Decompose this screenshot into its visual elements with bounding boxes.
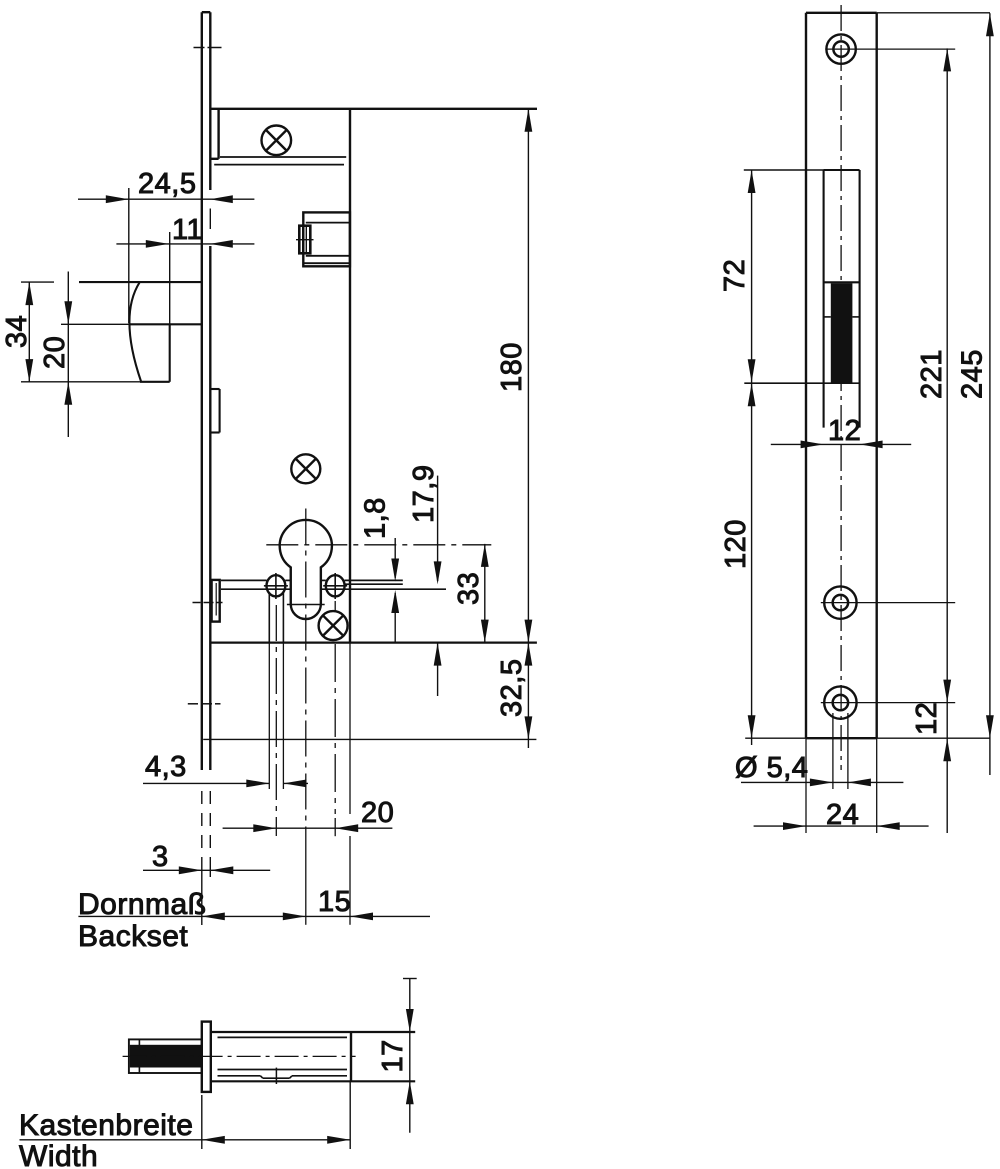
- profile cylinder (PZ) outline: [280, 520, 332, 619]
- faceplate hidden extension (left, dashed): [201, 791, 203, 925]
- bottom view: inner line with fixing notch: [218, 1068, 348, 1084]
- svg-text:221: 221: [916, 349, 948, 399]
- screw 2 (middle, with X): [291, 454, 320, 483]
- dimension 17,9: [408, 465, 442, 696]
- faceplate break tick (top): [194, 47, 222, 49]
- slide bar second line (right extension): [345, 583, 403, 585]
- svg-text:4,3: 4,3: [145, 751, 187, 783]
- side tab 1: [210, 389, 219, 433]
- strike plate outline: [806, 13, 877, 738]
- svg-text:17: 17: [377, 1039, 409, 1072]
- slide bar upper line: [221, 579, 403, 581]
- dimension 24 (plate width): [754, 799, 929, 831]
- latch follower hub: [303, 212, 350, 266]
- bottom view: deadbolt (black): [130, 1045, 202, 1068]
- dimension 12 (window width): [771, 415, 911, 448]
- screw 1 (top, with X): [262, 126, 292, 156]
- dimension 1,8: [360, 497, 400, 642]
- faceplate (front view, vertical strip): [202, 12, 211, 770]
- faceplate hidden extension (right, dashed): [209, 791, 211, 877]
- svg-text:24,5: 24,5: [138, 168, 196, 200]
- dimension 221: [916, 48, 951, 833]
- svg-text:33: 33: [453, 572, 485, 605]
- deadbolt mid edge (20 top): [61, 323, 202, 325]
- slide bar lower line: [221, 588, 446, 590]
- dimension 33: [453, 544, 489, 643]
- deadbolt bottom edge: [21, 381, 170, 383]
- PZ vertical centerline: [305, 509, 307, 925]
- svg-text:17,9: 17,9: [408, 465, 440, 523]
- dimension diameter 5,4: [735, 752, 903, 786]
- plate vertical centerline: [840, 5, 842, 770]
- svg-text:24: 24: [826, 799, 859, 831]
- plate edge extensions below (24 dim): [806, 738, 877, 833]
- bottom view: deadbolt outline: [129, 1039, 202, 1073]
- bottom view: faceplate cross-section: [202, 1022, 211, 1092]
- middle screw hole: [821, 586, 955, 618]
- top screw hole: [825, 34, 955, 63]
- svg-text:Width: Width: [19, 1140, 98, 1169]
- deadbolt right edge / 11 extension line: [169, 232, 171, 382]
- bottom view: case inner lines: [218, 1037, 348, 1069]
- svg-text:15: 15: [318, 886, 351, 918]
- case right edge extension (to 15 dim): [349, 643, 351, 925]
- bottom view: case outline: [211, 1032, 415, 1081]
- dimension 24,5: [78, 168, 254, 203]
- faceplate bottom edge line (32,5 reference): [203, 738, 536, 740]
- window bottom line / 72-120 extension: [744, 382, 859, 384]
- 34 extension tick (top): [21, 281, 54, 283]
- svg-text:Dornmaß: Dornmaß: [78, 888, 207, 921]
- svg-text:12: 12: [828, 415, 861, 447]
- latch window outline: [824, 170, 860, 428]
- right trunnion slot (ellipse with center ticks): [323, 573, 347, 599]
- svg-text:Backset: Backset: [78, 920, 188, 953]
- dimension 120: [720, 383, 756, 745]
- svg-text:11: 11: [172, 214, 203, 246]
- svg-text:Kastenbreite: Kastenbreite: [19, 1109, 193, 1142]
- svg-text:120: 120: [720, 519, 752, 569]
- left slot side lines / 4,3 extensions: [269, 592, 283, 789]
- dimension 3 (faceplate thickness): [143, 841, 270, 874]
- svg-text:32,5: 32,5: [496, 659, 528, 717]
- 24,5 extension line: [128, 188, 130, 323]
- svg-text:1,8: 1,8: [360, 497, 392, 539]
- dimension 34: [1, 282, 33, 382]
- PZ stem tick: [287, 604, 325, 606]
- svg-text:12: 12: [911, 702, 943, 735]
- svg-text:245: 245: [957, 349, 989, 399]
- dimension 180: [496, 109, 532, 643]
- side tab 2 (at slide bar): [212, 580, 220, 622]
- faceplate break tick (middle): [193, 602, 223, 604]
- deadbolt curved face (arc): [129, 283, 141, 382]
- svg-text:20: 20: [361, 797, 394, 829]
- screw 3 (lower, with X): [319, 611, 348, 640]
- dimension 4,3: [143, 751, 308, 787]
- plate top extension (245): [877, 12, 990, 14]
- dimension 20 (trunnion spacing): [223, 797, 395, 832]
- dimension 12 (hole to plate end): [911, 702, 951, 761]
- bottom screw hole: [821, 686, 955, 718]
- dimension 17 (case height): [377, 979, 417, 1133]
- hole diameter extension lines: [833, 713, 848, 789]
- case top inner step: [210, 110, 218, 159]
- dimension 72: [719, 170, 825, 383]
- svg-text:180: 180: [496, 342, 528, 392]
- left trunnion slot (ellipse with center ticks): [264, 573, 288, 599]
- dimension 245: [957, 13, 994, 775]
- PZ horizontal centerline / 33 extension: [266, 544, 491, 546]
- window lip lines: [824, 316, 860, 318]
- faceplate break tick (lower): [188, 703, 221, 705]
- svg-text:20: 20: [39, 336, 71, 369]
- svg-text:Ø 5,4: Ø 5,4: [735, 752, 808, 784]
- right trunnion centerline: [334, 601, 336, 836]
- dimension 11: [116, 214, 254, 248]
- dimension 32,5: [496, 643, 532, 748]
- Dornmass/Backset label and dimension line with 15: [78, 886, 430, 953]
- plate bottom extension lines: [745, 737, 990, 739]
- spring plate lines (top): [214, 157, 346, 165]
- bottom view: centerline: [123, 1055, 356, 1057]
- svg-text:3: 3: [152, 841, 169, 873]
- Kastenbreite/Width label and dimension: [19, 1081, 350, 1169]
- svg-text:72: 72: [719, 259, 751, 292]
- svg-text:34: 34: [1, 315, 33, 348]
- deadbolt (front view) top edge: [79, 281, 202, 283]
- deadbolt opening (black): [831, 283, 853, 383]
- dimension 20 (deadbolt): [39, 272, 72, 438]
- follower nub: [296, 226, 314, 254]
- left trunnion centerline: [275, 605, 277, 836]
- lock case outline: [210, 109, 537, 643]
